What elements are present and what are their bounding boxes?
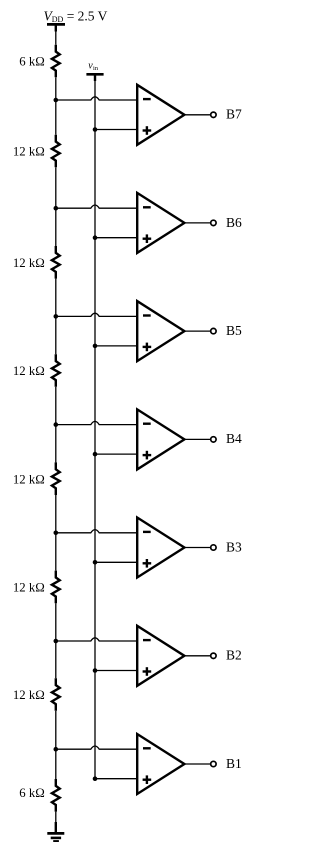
- svg-text:B2: B2: [226, 648, 242, 663]
- svg-text:12 kΩ: 12 kΩ: [13, 256, 45, 270]
- svg-text:12 kΩ: 12 kΩ: [13, 581, 45, 595]
- svg-text:B4: B4: [226, 431, 242, 446]
- svg-text:B1: B1: [226, 756, 242, 771]
- svg-text:12 kΩ: 12 kΩ: [13, 364, 45, 378]
- svg-text:12 kΩ: 12 kΩ: [13, 688, 45, 702]
- svg-text:6 kΩ: 6 kΩ: [19, 55, 45, 69]
- svg-text:6 kΩ: 6 kΩ: [19, 786, 45, 800]
- svg-text:12 kΩ: 12 kΩ: [13, 472, 45, 486]
- svg-text:B6: B6: [226, 215, 242, 230]
- svg-text:B5: B5: [226, 323, 242, 338]
- svg-text:in: in: [93, 65, 99, 72]
- svg-text:B7: B7: [226, 107, 242, 122]
- svg-text:B3: B3: [226, 539, 242, 554]
- svg-text:12 kΩ: 12 kΩ: [13, 145, 45, 159]
